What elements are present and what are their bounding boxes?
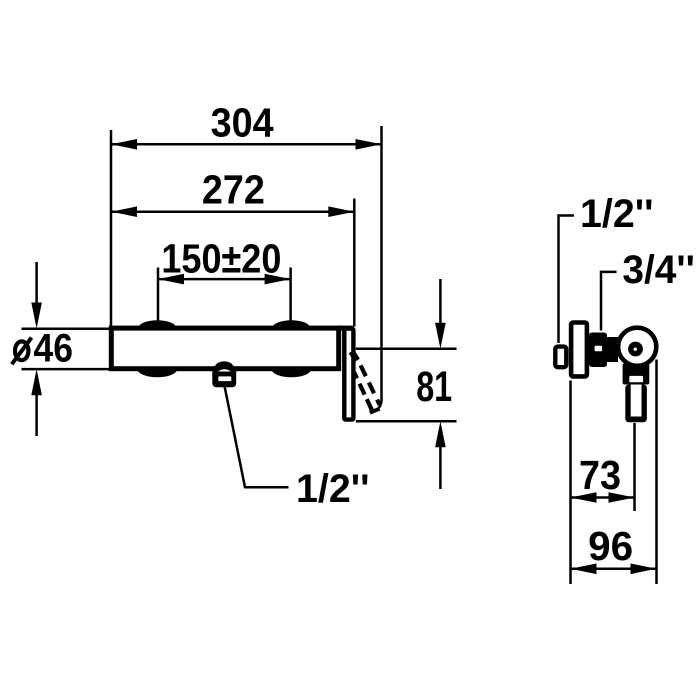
collar white slot (629, 376, 643, 382)
right end bracket (344, 329, 353, 420)
svg-text:96: 96 (588, 523, 633, 569)
extension line left 150 (157, 268, 160, 322)
spout dashed upper edge (361, 365, 380, 405)
svg-text:304: 304 (211, 100, 274, 146)
spout wedge (attachment) (352, 352, 358, 361)
diameter 46 top arrow (35, 262, 38, 315)
valve center disc (628, 342, 643, 357)
dimension line 272 (111, 210, 354, 213)
svg-text:150±20: 150±20 (161, 235, 281, 281)
connector white notch (595, 346, 603, 351)
leader line 1/2" outlet (225, 386, 289, 487)
dimension line 150+-20 (158, 278, 291, 281)
spout outlet end cap (370, 409, 380, 413)
svg-text:81: 81 (416, 363, 452, 411)
mounting nut top right (273, 320, 310, 334)
diameter 46 bottom arrow (35, 385, 38, 436)
svg-text:1/2'': 1/2'' (580, 192, 654, 236)
extension line right 96 (655, 360, 658, 585)
valve center dot (634, 348, 637, 351)
side view: valve circle (618, 328, 656, 366)
side view: wall nib 1/2 inch (555, 347, 566, 368)
extension line left (73/96) (569, 381, 572, 585)
leader line 3/4" (601, 272, 617, 331)
label diameter 46 symbol (15, 341, 28, 360)
mounting nut bottom left (137, 360, 178, 378)
outlet block 1/2" (212, 366, 236, 388)
outlet white slot (218, 376, 231, 381)
dimension line 304 (111, 143, 382, 146)
diameter 46 bottom extension (22, 368, 114, 371)
svg-text:272: 272 (202, 166, 265, 212)
svg-text:46: 46 (34, 327, 74, 371)
spout dashed lower edge (354, 372, 372, 410)
top edge over bracket (338, 326, 353, 331)
dimension line 73 (571, 496, 635, 499)
leader line 1/2" side view (559, 216, 575, 344)
outlet white arch (218, 369, 230, 371)
side view: collar (623, 364, 650, 385)
side view: connector nut 3/4 inch (589, 333, 607, 368)
extension line left (304/272) (110, 130, 113, 326)
81 bottom extension line (356, 420, 457, 423)
extension line right 272 (353, 199, 356, 327)
svg-text:73: 73 (579, 452, 621, 498)
extension line right 304 / spout edge (377, 126, 382, 410)
dimension line 96 (571, 568, 657, 571)
extension line right 150 (289, 268, 292, 322)
81 top extension line (356, 347, 457, 350)
svg-text:3/4'': 3/4'' (622, 248, 695, 292)
diameter 46 top extension (22, 328, 114, 331)
side view: handle stem (625, 385, 647, 423)
81 top arrow (439, 279, 442, 330)
extension line right 73 (633, 423, 636, 511)
mounting nut top left (139, 320, 176, 334)
faucet body (front view) (111, 328, 338, 369)
svg-text:1/2'': 1/2'' (296, 467, 370, 511)
81 bottom arrow (439, 440, 442, 489)
side view: flange plate (571, 323, 587, 377)
mounting nut bottom right (271, 360, 312, 378)
outlet dome (215, 361, 234, 373)
